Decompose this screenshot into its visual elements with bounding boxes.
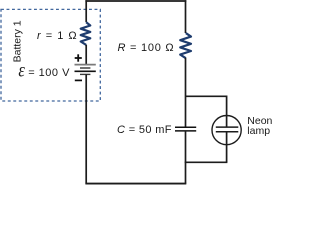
svg-text:Battery 1: Battery 1 — [11, 20, 23, 62]
wire capacitor to bottom — [185, 131, 187, 184]
svg-text:= 100 V: = 100 V — [28, 67, 70, 79]
wire battery to bottom — [85, 74, 87, 183]
svg-text:C = 50 mF: C = 50 mF — [117, 124, 172, 136]
svg-text:lamp: lamp — [247, 125, 270, 137]
capacitor C plates — [175, 127, 196, 131]
wire R down to capacitor — [185, 58, 187, 128]
battery B1 plus sign — [75, 54, 82, 61]
svg-text:R = 100 Ω: R = 100 Ω — [118, 42, 175, 54]
wire lamp branch bottom — [185, 161, 228, 163]
battery B1 plates — [75, 65, 96, 75]
wire r to battery — [85, 45, 87, 65]
neon lamp top lead — [226, 96, 228, 128]
battery enclosure dashed box — [1, 9, 100, 101]
battery B1 minus sign — [75, 79, 82, 81]
neon lamp circle — [212, 116, 241, 145]
wire lamp branch top — [186, 95, 227, 97]
wire right top (into resistor R) — [185, 0, 187, 33]
svg-text:ε: ε — [18, 59, 25, 81]
neon lamp electrodes — [216, 127, 239, 132]
neon lamp bottom lead — [226, 132, 228, 163]
wire left top (into resistor r) — [85, 0, 87, 22]
wire top — [85, 0, 186, 2]
resistor r — [81, 22, 91, 45]
resistor R — [180, 33, 191, 58]
svg-text:r = 1 Ω: r = 1 Ω — [37, 30, 78, 42]
wire bottom — [85, 183, 186, 185]
